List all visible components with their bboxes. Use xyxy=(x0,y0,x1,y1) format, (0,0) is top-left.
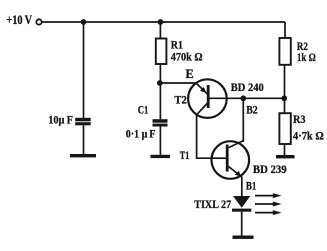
wire: rail down to R2 xyxy=(284,22,286,38)
resistor R3 xyxy=(279,113,290,144)
svg-text:10µ F: 10µ F xyxy=(48,113,73,127)
wire: T2 base to R2/R3 node xyxy=(208,97,284,99)
transistor T2 (BD 240, PNP) xyxy=(188,79,227,118)
svg-text:R3: R3 xyxy=(293,112,306,126)
wire: 10uF to ground xyxy=(83,125,85,154)
svg-text:T1: T1 xyxy=(180,148,190,162)
svg-text:TIXL 27: TIXL 27 xyxy=(194,197,231,211)
ground (10uF) xyxy=(70,154,96,157)
svg-text:+10 V: +10 V xyxy=(6,13,32,27)
wire: R1 bottom to C1 xyxy=(159,64,161,119)
wire: LED to ground xyxy=(241,212,243,236)
resistor R1 xyxy=(156,39,167,65)
node: rail / 10uF branch xyxy=(81,19,87,25)
wire: rail down to 10uF capacitor xyxy=(83,22,85,118)
ground (C1) xyxy=(151,155,171,158)
svg-text:B1: B1 xyxy=(246,178,257,192)
light ray arrow 2 xyxy=(255,202,282,207)
svg-text:BD 239: BD 239 xyxy=(253,162,287,176)
wire: T2 collector down to T1 base xyxy=(197,115,212,158)
node: base line / R2 / R3 xyxy=(281,95,287,101)
svg-text:470k Ω: 470k Ω xyxy=(171,50,203,64)
wire: R2 bottom to node xyxy=(284,65,286,113)
capacitor 10uF xyxy=(75,118,91,125)
capacitor C1 xyxy=(153,119,168,126)
svg-text:E: E xyxy=(185,67,193,81)
supply terminal xyxy=(36,19,41,24)
svg-text:T2: T2 xyxy=(174,92,186,106)
wire: rail down to R1 xyxy=(159,22,161,39)
transistor T1 (BD 239, NPN) xyxy=(212,141,250,179)
light ray arrow 1 xyxy=(255,193,282,198)
LED TIXL 27 xyxy=(232,196,251,212)
svg-text:1k Ω: 1k Ω xyxy=(297,50,316,64)
svg-text:B2: B2 xyxy=(246,103,258,117)
ground (LED) xyxy=(233,236,254,239)
wire: +10V rail xyxy=(42,21,285,23)
node: R1 / C1 / T2 emitter xyxy=(157,80,163,86)
node: rail / R1 branch xyxy=(158,19,164,25)
wire: T1 emitter down to LED xyxy=(241,177,243,197)
svg-text:C1: C1 xyxy=(138,103,149,117)
svg-text:4·7k Ω: 4·7k Ω xyxy=(293,129,324,143)
node: base line / T1 collector xyxy=(240,95,246,101)
svg-text:BD 240: BD 240 xyxy=(231,80,264,94)
svg-text:0·1 µ F: 0·1 µ F xyxy=(126,127,156,141)
wire: node B2 down to T1 collector xyxy=(242,98,244,142)
wire: node to T2 emitter xyxy=(160,82,196,84)
resistor R2 xyxy=(279,38,290,65)
wire: R3 to ground xyxy=(284,144,286,155)
light ray arrow 3 xyxy=(255,210,282,215)
wire: C1 to ground xyxy=(159,127,161,155)
ground (R3) xyxy=(276,155,295,158)
